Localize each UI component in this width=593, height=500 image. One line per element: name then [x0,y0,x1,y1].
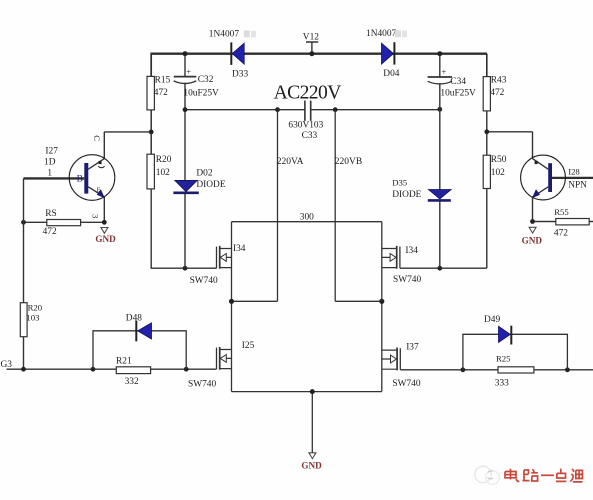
mosfet I34 top-left SW740 [190,244,246,286]
node junction right rail / collector [484,129,489,134]
ground GND left [95,228,116,245]
diode D48 [126,313,152,341]
svg-text:D49: D49 [484,315,500,325]
node junction emitter / RS / GND [102,220,107,225]
wire left pulldown rail [23,178,25,369]
diode D49 [484,315,511,344]
svg-text:SW740: SW740 [188,380,216,390]
node junction bottom centre [310,389,315,394]
resistor R20 103 (pulldown, bottom-left) [20,303,42,337]
svg-text:C33: C33 [302,131,318,141]
node junction D49 left [461,367,466,372]
svg-text:3: 3 [91,214,101,218]
wire gate line A (to I34 top-left gate) [151,267,217,269]
wire net 220VB vertical [334,110,336,302]
label 220VB [335,157,362,167]
wire left rail lower (R20 to gate line A) [150,189,152,268]
svg-text:102: 102 [491,168,505,178]
svg-text:1N4007: 1N4007 [209,30,240,40]
wire H-bridge top edge [232,221,382,223]
wire left collector link [104,132,151,158]
svg-text:D33: D33 [232,70,248,80]
wire C34/D35 column [439,54,441,269]
svg-text:630V103: 630V103 [288,121,323,131]
resistor R43 472 [483,75,507,110]
wire D48 bypass loop [93,331,186,369]
node junction mid rail / D02 column [183,107,188,112]
wire R55 link [533,221,593,223]
wire right collector link [487,132,533,158]
wire bottom GND stub [311,392,313,453]
label 220VA [277,157,304,167]
diode D35 DIODE [392,178,451,201]
mosfet I25 bottom-left SW740 [188,341,255,390]
wire net 220VA vertical [277,110,279,302]
node junction D49 right [565,367,570,372]
resistor RS 472 [43,209,81,237]
wire left base lead [24,177,85,179]
node junction gate-A / D02 [183,266,188,271]
transistor Q1 I27 (left) [44,135,115,218]
wire RS link [24,221,105,223]
label AC220V [274,82,342,103]
resistor R15 472 [147,76,171,110]
resistor R21 332 [116,357,151,388]
capacitor C34 10uF25V [428,67,476,99]
svg-text:220VA: 220VA [277,157,304,167]
node junction mid rail / C34 column [437,107,442,112]
capacitor C32 10uF25V [174,67,219,99]
svg-text:220VB: 220VB [335,157,362,167]
svg-text:V12: V12 [303,32,319,42]
svg-text:472: 472 [490,88,504,98]
node junction left rail mid [229,299,234,304]
glyph 通 [570,469,582,482]
ground GND right [522,227,543,245]
node junction mid rail / 220VB [333,107,338,112]
wire H-bridge left rail [231,222,233,392]
glyph 电 [505,469,519,482]
svg-text:1N4007: 1N4007 [366,29,397,39]
wire inner link 220VA to left rail [232,300,278,302]
svg-text:102: 102 [156,168,170,178]
svg-text:I28: I28 [568,166,580,176]
resistor R50 102 [483,155,507,189]
svg-text:RS: RS [45,209,56,219]
label 300 [300,213,314,223]
svg-text:DIODE: DIODE [392,190,421,200]
wire D49 bypass loop [463,334,568,370]
svg-text:GND: GND [95,234,116,244]
mosfet I34 top-right SW740 [382,246,422,285]
svg-text:R20: R20 [28,303,43,313]
wire right rail middle (R43 to R50) [486,111,488,155]
svg-text:SW740: SW740 [190,276,218,286]
svg-text:I34: I34 [405,246,418,256]
svg-text:SW740: SW740 [393,275,421,285]
svg-text:E: E [97,187,101,194]
svg-text:+: + [442,67,447,77]
svg-text:C: C [92,135,102,141]
wire C32/D02 column [184,54,186,269]
wire AC mid rail (through C33) [185,109,440,111]
svg-text:SW740: SW740 [392,379,420,389]
svg-text:10uF25V: 10uF25V [183,88,219,98]
diode D33 1N4007 [209,30,256,80]
wire left rail middle (R15 to R20) [150,110,152,154]
wire top bus V12 rail [150,53,487,55]
svg-text:1: 1 [47,169,52,179]
node junction top bus / C32 [183,51,188,56]
wire right rail top (to R43) [486,54,488,77]
node V12 power port [303,32,319,56]
svg-text:10uF25V: 10uF25V [440,89,476,99]
svg-text:R55: R55 [554,207,568,217]
wire H-bridge bottom edge [232,391,382,393]
watermark text 电路一点通 [505,469,583,482]
ground GND bottom [301,453,322,471]
wire H-bridge right rail [381,222,383,392]
glyph 一 [541,474,554,476]
svg-text:R25: R25 [496,354,510,364]
svg-text:C32: C32 [198,75,214,85]
glyph 点 [556,469,566,482]
node junction mid rail / 220VA [275,107,280,112]
svg-text:R21: R21 [116,357,132,367]
svg-text:R20: R20 [156,155,172,165]
svg-text:I37: I37 [406,343,419,353]
svg-text:AC220V: AC220V [274,82,342,103]
svg-text:R50: R50 [491,155,507,165]
svg-text:R43: R43 [491,75,507,85]
node junction D48 left [91,367,96,372]
svg-text:332: 332 [125,377,139,387]
node junction top bus / C34 [437,51,442,56]
node junction G3 / pulldown [21,367,26,372]
svg-text:103: 103 [26,313,39,323]
watermark logo circles [475,466,500,484]
svg-text:GND: GND [301,460,322,470]
svg-text:472: 472 [554,229,568,239]
node junction right rail mid [379,299,384,304]
svg-text:300: 300 [300,213,314,223]
node junction D48 right [184,367,189,372]
wire right rail lower + gate line B [400,189,487,269]
svg-text:I25: I25 [242,341,255,351]
resistor R55 472 [554,207,589,239]
svg-text:GND: GND [522,235,543,245]
resistor R20 102 [147,154,172,189]
svg-text:1D: 1D [44,157,56,167]
diode D04 1N4007 [366,29,407,79]
svg-text:I27: I27 [45,147,58,157]
svg-text:C34: C34 [450,77,466,87]
wire right base lead [552,177,593,179]
wire left emitter lead down [103,197,105,222]
node junction right emitter / GND [530,219,535,224]
svg-text:B: B [77,175,83,185]
resistor R25 333 [495,354,534,389]
capacitor C33 630V103 [288,101,323,142]
svg-text:472: 472 [154,88,168,98]
svg-text:472: 472 [43,227,57,237]
svg-text:NPN: NPN [568,180,587,190]
svg-text:DIODE: DIODE [196,180,225,190]
svg-text:D48: D48 [126,313,142,323]
node junction gate-B / D35 [437,266,442,271]
svg-text:333: 333 [495,378,509,388]
node junction base rail / RS [21,220,26,225]
node junction left rail / collector [149,130,154,135]
glyph 路 [523,469,538,481]
wire gate line bottom-right [400,369,593,371]
svg-text:R15: R15 [155,76,171,86]
wire inner link 220VB to right rail [335,300,382,302]
svg-text:D35: D35 [392,178,407,188]
wire right emitter lead down [532,197,534,222]
svg-text:+: + [186,67,191,77]
transistor Q2 I28 NPN (right) [521,155,588,200]
wire left rail top (to R15) [150,54,152,77]
label G3 port [1,360,13,370]
svg-text:G3: G3 [1,360,13,370]
svg-text:D04: D04 [383,69,399,79]
svg-text:I34: I34 [233,244,246,254]
diode D02 DIODE [173,168,225,193]
mosfet I37 bottom-right SW740 [382,343,421,390]
svg-text:D02: D02 [196,168,212,178]
wire G3 input line [7,368,217,370]
